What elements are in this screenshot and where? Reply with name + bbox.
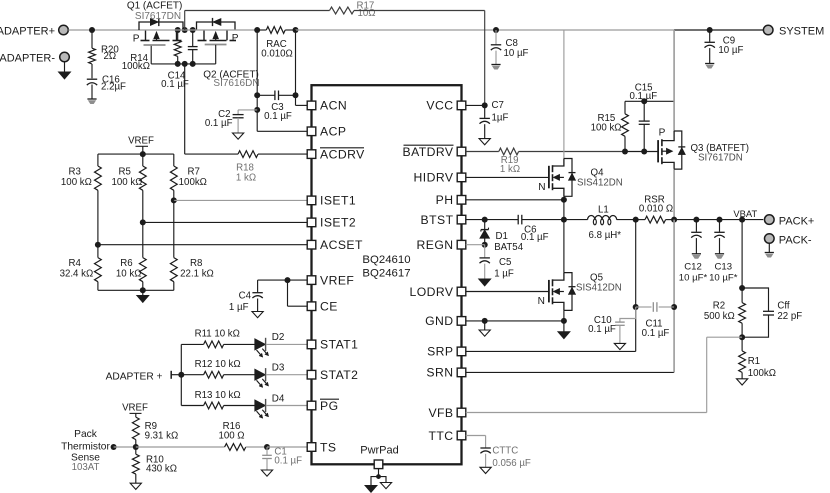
transistor Q1 (ACFET) <box>133 18 183 45</box>
diode D1 BAT54 <box>480 220 524 253</box>
svg-text:PG: PG <box>320 399 339 413</box>
wire L1-RSR <box>617 219 636 221</box>
wire ISET1 <box>174 199 307 201</box>
pin ACSET <box>307 238 363 252</box>
capacitor Cff <box>742 288 802 337</box>
svg-text:VREF: VREF <box>128 136 154 147</box>
svg-text:C12: C12 <box>684 261 702 272</box>
pin ACN <box>307 99 347 113</box>
svg-text:C7: C7 <box>492 100 504 111</box>
node C15 top <box>641 98 647 104</box>
svg-text:ADAPTER+: ADAPTER+ <box>0 25 55 37</box>
ground divider <box>137 290 149 302</box>
svg-text:0.010Ω: 0.010Ω <box>261 49 292 60</box>
wire vbat rail <box>674 219 763 221</box>
capacitor C11 <box>636 302 674 339</box>
svg-text:22.1 kΩ: 22.1 kΩ <box>180 269 214 280</box>
svg-text:STAT1: STAT1 <box>320 338 358 352</box>
svg-text:ACN: ACN <box>320 99 347 113</box>
pin CE <box>307 300 338 314</box>
svg-text:100 kΩ: 100 kΩ <box>112 177 143 188</box>
node gate rail R14 <box>175 61 181 67</box>
node C9 <box>707 27 713 33</box>
svg-text:VREF: VREF <box>122 403 148 414</box>
node rail R14 <box>175 27 181 33</box>
wire ISET2 <box>143 221 307 223</box>
svg-text:ACDRV: ACDRV <box>320 147 365 161</box>
wire switch-L1 <box>564 219 588 221</box>
wire Q4src-switch <box>563 196 565 219</box>
pin BTST <box>421 213 466 227</box>
svg-text:R7: R7 <box>188 167 200 178</box>
node ISET2 tap <box>140 219 146 225</box>
svg-text:BAT54: BAT54 <box>494 242 524 253</box>
node RAC left <box>254 27 260 33</box>
wire TS left <box>114 446 136 448</box>
label Q5 <box>590 272 603 283</box>
wire gate node down <box>184 64 186 154</box>
wire VREF stem <box>136 146 149 154</box>
node thermistor sense <box>111 444 117 450</box>
svg-text:ADAPTER +: ADAPTER + <box>106 371 163 382</box>
svg-text:0.010 Ω: 0.010 Ω <box>639 204 673 215</box>
pin VREF <box>307 273 354 287</box>
wire R17 left vert <box>184 11 186 31</box>
wire gate rail <box>151 63 216 65</box>
svg-text:2Ω: 2Ω <box>104 51 117 62</box>
node adapter junction <box>89 27 95 33</box>
svg-text:0.1 µF: 0.1 µF <box>205 118 233 129</box>
pin PH <box>436 193 466 207</box>
svg-text:CTTC: CTTC <box>492 445 518 456</box>
resistor R6 <box>116 222 146 290</box>
wire adapter+ rail <box>68 29 140 31</box>
node C11 right <box>671 304 677 310</box>
pin REGN <box>416 238 465 252</box>
svg-text:P: P <box>133 34 140 45</box>
svg-text:1 kΩ: 1 kΩ <box>500 164 520 175</box>
svg-text:0.1 µF: 0.1 µF <box>264 111 292 122</box>
capacitor C16 <box>87 74 126 92</box>
svg-text:100kΩ: 100kΩ <box>179 177 207 188</box>
svg-text:32.4 kΩ: 32.4 kΩ <box>60 269 94 280</box>
wire rail q1q2 zone <box>141 29 258 31</box>
svg-text:ISET1: ISET1 <box>320 194 356 208</box>
svg-text:9.31 kΩ: 9.31 kΩ <box>145 431 179 442</box>
svg-text:100 kΩ: 100 kΩ <box>61 177 92 188</box>
inductor L1 <box>588 205 622 241</box>
label Q3 partnum <box>698 153 743 164</box>
led D2 <box>255 332 284 357</box>
node C3 left <box>254 92 260 98</box>
node switch <box>561 217 567 223</box>
wire ACP horiz <box>257 130 307 132</box>
capacitor C6 <box>514 215 564 243</box>
wire Q4 drain vert <box>563 30 565 159</box>
svg-text:HIDRV: HIDRV <box>414 171 454 185</box>
svg-text:10 µF: 10 µF <box>504 48 529 59</box>
node GND left <box>482 318 488 324</box>
wire D2-STAT1 <box>266 343 307 345</box>
resistor RSR <box>636 195 674 223</box>
pin VCC <box>426 99 465 113</box>
label U1 <box>362 254 410 280</box>
wire rail middle <box>296 29 675 31</box>
capacitor C7 <box>479 100 508 145</box>
capacitor CTTC <box>480 445 531 473</box>
svg-text:VCC: VCC <box>426 99 453 113</box>
svg-text:PACK-: PACK- <box>779 235 812 247</box>
pin VFB <box>428 406 465 420</box>
terminal ADAPTER- <box>0 52 69 64</box>
wire R15C15 top rail <box>625 100 674 102</box>
svg-text:C4: C4 <box>239 290 252 301</box>
svg-text:BATDRV: BATDRV <box>402 145 453 159</box>
label Q4 <box>591 168 605 179</box>
svg-text:P: P <box>659 127 666 138</box>
svg-text:SI7616DN: SI7616DN <box>213 78 259 89</box>
node divider gnd <box>140 287 146 293</box>
pin HIDRV <box>414 171 466 185</box>
wire C2 link <box>238 110 257 114</box>
pin GND <box>425 314 466 328</box>
svg-text:ADAPTER-: ADAPTER- <box>0 52 55 64</box>
wire R20 branch <box>91 30 93 48</box>
svg-text:R12 10 kΩ: R12 10 kΩ <box>195 359 241 370</box>
svg-text:6.8 µH*: 6.8 µH* <box>589 230 622 241</box>
wire R17 top right <box>354 10 485 12</box>
svg-text:SI7617DN: SI7617DN <box>135 11 181 22</box>
label ADAPTER + <box>106 371 163 382</box>
capacitor C4 <box>229 280 263 318</box>
svg-text:L1: L1 <box>598 205 609 216</box>
wire VCC <box>466 104 485 106</box>
ground below C16 <box>87 99 96 104</box>
svg-text:VBAT: VBAT <box>733 208 757 219</box>
capacitor C14 <box>161 30 197 90</box>
pin TS <box>307 440 336 454</box>
svg-text:100kΩ: 100kΩ <box>748 368 776 379</box>
ground R10 <box>130 483 141 489</box>
svg-text:1 µF: 1 µF <box>494 268 514 279</box>
capacitor C1 <box>261 446 302 476</box>
wire BTST <box>466 219 514 221</box>
svg-text:PwrPad: PwrPad <box>360 445 399 457</box>
svg-text:0.1 µF: 0.1 µF <box>642 328 670 339</box>
svg-text:SRP: SRP <box>427 345 453 359</box>
pin BATDRV <box>402 145 465 159</box>
wire vbat-R2 <box>741 220 743 288</box>
wire TTC <box>466 436 486 448</box>
pin PwrPad <box>360 445 399 469</box>
ground Q5 source <box>558 321 570 339</box>
svg-text:BTST: BTST <box>421 213 454 227</box>
capacitor C5 <box>479 245 514 286</box>
wire VREF pin <box>258 279 308 281</box>
resistor RAC <box>257 27 295 60</box>
capacitor C8 <box>491 30 529 69</box>
wire rail right black <box>674 29 763 31</box>
node C2 tap <box>254 107 260 113</box>
node SRP rail <box>633 217 639 223</box>
node VBAT <box>739 217 745 223</box>
wire ACN horiz <box>296 104 308 106</box>
svg-text:ACP: ACP <box>320 125 346 139</box>
node LED bus <box>178 372 184 378</box>
node C10 tap <box>633 304 639 310</box>
capacitor C3 <box>257 91 295 122</box>
label Q4 N <box>538 182 545 193</box>
svg-text:SIS412DN: SIS412DN <box>576 282 622 293</box>
transistor Q4 <box>549 159 576 197</box>
transistor Q2 (ACFET) <box>197 18 239 45</box>
node VCC C7 <box>482 102 488 108</box>
svg-text:R1: R1 <box>748 356 760 367</box>
pin ISET2 <box>307 216 356 230</box>
resistor R3 <box>61 154 101 245</box>
node TS junction <box>133 444 139 450</box>
capacitor C9 <box>705 30 744 68</box>
pin TTC <box>428 429 465 443</box>
svg-text:BQ24610: BQ24610 <box>362 254 410 266</box>
wire C16-gnd <box>91 85 93 100</box>
capacitor C12 <box>679 220 708 284</box>
wire SRP <box>466 220 636 352</box>
wire Q2 gate lead <box>215 45 217 64</box>
label Q2 partnum <box>213 78 259 89</box>
label Q3 <box>691 143 749 154</box>
resistor R5 <box>112 154 147 222</box>
resistor R13 <box>181 390 255 409</box>
capacitor C13 <box>709 220 738 284</box>
svg-text:103AT: 103AT <box>72 462 100 473</box>
svg-text:10Ω: 10Ω <box>358 8 376 19</box>
node BTST D1 <box>482 217 488 223</box>
resistor R11 <box>181 329 255 348</box>
node rail mid <box>182 27 188 33</box>
svg-text:100 kΩ: 100 kΩ <box>591 122 622 133</box>
pin STAT2 <box>307 368 358 382</box>
node SRN rail <box>671 217 677 223</box>
resistor R10 <box>132 447 177 483</box>
resistor R7 <box>170 154 207 200</box>
label pack thermistor <box>61 429 110 473</box>
svg-text:430 kΩ: 430 kΩ <box>146 464 177 475</box>
svg-text:D2: D2 <box>272 332 285 343</box>
node R15 bottom <box>622 149 628 155</box>
node gate rail C14 <box>190 61 196 67</box>
svg-text:TS: TS <box>320 440 336 454</box>
resistor R19 <box>466 148 625 175</box>
svg-text:SI7617DN: SI7617DN <box>698 153 743 164</box>
node ISET1 tap <box>171 197 177 203</box>
resistor R18 <box>185 151 308 184</box>
svg-text:R13 10 kΩ: R13 10 kΩ <box>195 390 241 401</box>
svg-text:STAT2: STAT2 <box>320 368 358 382</box>
wire R20-C16 <box>91 64 93 78</box>
svg-text:R3: R3 <box>69 167 81 178</box>
svg-text:TTC: TTC <box>428 429 453 443</box>
wire SRN <box>466 220 674 373</box>
svg-text:2.2µF: 2.2µF <box>101 81 126 92</box>
wire switch-Q5 <box>563 220 565 273</box>
node ACSET tap <box>95 242 101 248</box>
svg-text:R6: R6 <box>120 258 132 269</box>
resistor R20 <box>89 45 120 64</box>
ground GND pin <box>479 321 490 336</box>
resistor R15 <box>591 101 629 151</box>
ground PACK- <box>765 243 774 257</box>
capacitor C15 <box>629 83 657 152</box>
svg-text:Thermistor: Thermistor <box>61 442 110 453</box>
svg-text:SRN: SRN <box>426 366 453 380</box>
node Cff top <box>739 285 745 291</box>
terminal PACK- <box>765 234 812 247</box>
pin STAT1 <box>307 338 358 352</box>
svg-text:R8: R8 <box>190 258 202 269</box>
wire R17 down to VCC <box>484 11 486 106</box>
pin LODRV <box>409 285 465 299</box>
svg-text:10 µF*: 10 µF* <box>679 272 708 283</box>
svg-text:0.1 µF: 0.1 µF <box>274 456 302 467</box>
node C8 <box>493 27 499 33</box>
node C12 rail <box>693 217 699 223</box>
pin ACP <box>307 125 346 139</box>
node RAC right <box>293 27 299 33</box>
resistor R12 <box>181 359 255 378</box>
svg-text:R11 10 kΩ: R11 10 kΩ <box>195 329 240 340</box>
svg-text:N: N <box>538 182 545 193</box>
svg-text:LODRV: LODRV <box>409 285 453 299</box>
wire gate q3 <box>625 151 658 153</box>
svg-text:REGN: REGN <box>416 238 453 252</box>
svg-text:100kΩ: 100kΩ <box>122 61 150 72</box>
label VREF <box>128 136 154 147</box>
resistor R2 <box>704 288 746 337</box>
label Q4 partnum <box>577 178 623 189</box>
svg-text:VFB: VFB <box>428 406 453 420</box>
transistor Q5 <box>549 273 576 311</box>
pin PG <box>307 399 339 413</box>
wire R17 top left <box>185 10 330 12</box>
pin ACDRV <box>307 147 365 161</box>
node C3 right <box>293 92 299 98</box>
svg-text:C13: C13 <box>714 261 732 272</box>
wire CE link <box>288 280 308 306</box>
node rail C14 <box>190 27 196 33</box>
wire Q3 vertical <box>673 30 675 220</box>
node gate rail mid <box>182 61 188 67</box>
node C1 tap <box>264 444 270 450</box>
svg-text:SIS412DN: SIS412DN <box>577 178 623 189</box>
resistor R16 <box>136 421 267 450</box>
wire LODRV <box>466 291 549 293</box>
wire D4-PG <box>266 405 307 407</box>
wire VREF2 stem <box>130 413 142 417</box>
wire VFB <box>466 337 742 412</box>
pin SRN <box>426 366 465 380</box>
node PH <box>561 197 567 203</box>
svg-text:C5: C5 <box>499 257 511 268</box>
wire D3-STAT2 <box>266 374 307 376</box>
led D3 <box>255 363 285 388</box>
wire Q1 gate lead <box>150 46 152 64</box>
pin SRP <box>427 345 466 359</box>
svg-text:ACSET: ACSET <box>320 238 363 252</box>
capacitor C2 <box>205 109 244 139</box>
pin ISET1 <box>307 194 356 208</box>
terminal ADAPTER+ <box>0 25 68 37</box>
ground below ADAPTER- <box>59 62 71 79</box>
wire Q5src-GND <box>563 310 565 321</box>
label Q5 partnum <box>576 282 622 293</box>
terminal PACK+ <box>765 215 815 228</box>
svg-text:500 kΩ: 500 kΩ <box>704 311 735 322</box>
node C13 rail <box>717 217 723 223</box>
wire ACP vert <box>256 30 258 131</box>
svg-text:10 kΩ: 10 kΩ <box>116 269 142 280</box>
node C15 bottom <box>641 149 647 155</box>
svg-text:VREF: VREF <box>320 273 354 287</box>
wire ACN vert <box>295 30 297 105</box>
resistor R4 <box>60 200 174 290</box>
svg-text:0.056 µF: 0.056 µF <box>492 458 531 469</box>
capacitor C10 <box>588 307 636 350</box>
svg-text:1µF: 1µF <box>492 113 509 124</box>
label Q1 partnum <box>135 11 181 22</box>
wire PH <box>466 199 564 201</box>
svg-text:10 µF*: 10 µF* <box>709 272 738 283</box>
svg-text:D1: D1 <box>496 231 508 242</box>
resistor R14 <box>122 30 181 72</box>
label VBAT <box>733 208 757 219</box>
wire divider bottom rail <box>98 289 174 291</box>
led D4 <box>255 393 285 418</box>
svg-text:P: P <box>232 33 239 44</box>
svg-text:ISET2: ISET2 <box>320 216 356 230</box>
terminal SYSTEM <box>763 25 824 37</box>
svg-text:10 µF: 10 µF <box>718 45 743 56</box>
svg-text:D4: D4 <box>272 393 285 404</box>
label Q5 N <box>538 296 545 307</box>
wire HIDRV <box>466 176 549 178</box>
svg-text:1 µF: 1 µF <box>229 302 249 313</box>
svg-text:GND: GND <box>425 314 453 328</box>
svg-text:BQ24617: BQ24617 <box>362 268 410 280</box>
svg-text:0.1 µF: 0.1 µF <box>521 232 549 243</box>
resistor R17 <box>330 1 376 20</box>
svg-text:Pack: Pack <box>74 429 98 440</box>
svg-text:Q1 (ACFET): Q1 (ACFET) <box>127 0 183 11</box>
label Q2 <box>203 69 259 80</box>
svg-text:0.1 µF: 0.1 µF <box>588 324 616 335</box>
svg-text:22 pF: 22 pF <box>777 311 802 322</box>
label Q1 <box>127 0 183 11</box>
svg-text:D3: D3 <box>272 363 285 374</box>
svg-text:CE: CE <box>320 300 338 314</box>
ground PwrPad <box>365 469 392 493</box>
resistor R1 <box>737 337 776 385</box>
svg-text:100 Ω: 100 Ω <box>218 431 244 442</box>
node GND q5 <box>561 318 567 324</box>
resistor R8 <box>170 200 213 290</box>
svg-text:1 kΩ: 1 kΩ <box>236 172 256 183</box>
wire ACSET <box>98 244 307 246</box>
wire LED bus <box>180 344 182 405</box>
wire divider top rail <box>98 153 174 155</box>
wire TS right <box>267 446 307 448</box>
op-amp U1 BQ24610 outline <box>312 85 462 464</box>
